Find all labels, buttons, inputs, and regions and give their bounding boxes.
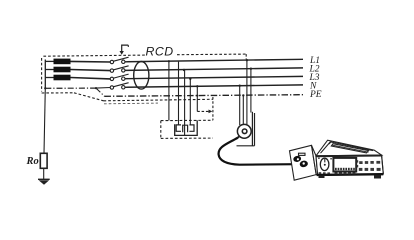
socket contact 2 [183, 125, 188, 132]
wire drop from L3 to socket pin R [189, 79, 191, 125]
instrument top face [316, 140, 382, 156]
instrument front face [316, 155, 383, 175]
plug circle [237, 124, 251, 138]
instrument right edge [382, 155, 384, 174]
junction node earth tap [44, 87, 46, 89]
wire fuse F1 to switch [71, 60, 111, 63]
supply dashed enclosure bottom border [42, 92, 74, 94]
connector small mark [299, 153, 306, 155]
keypad row 2 [359, 168, 381, 171]
boundary second dashed segment [104, 102, 158, 105]
junction dot plug L1 tap [246, 59, 248, 61]
socket contact 1 [176, 125, 181, 131]
junction dot on L3 [189, 78, 191, 80]
wire fuse F3 to switch [71, 78, 111, 79]
ground electrode symbol [38, 179, 50, 185]
earth wire down to Ro [44, 88, 45, 153]
svg-text:Ro: Ro [26, 156, 39, 167]
junction node PEN split [95, 87, 97, 89]
wire drop from N [196, 86, 198, 111]
display [333, 158, 356, 172]
switch contact row 3 [110, 74, 128, 81]
RCD toroid [134, 62, 149, 90]
fuse F1 [45, 59, 70, 65]
dashed stub above L1 tap [245, 54, 247, 59]
dashed vertical at socket box right [212, 97, 214, 120]
socket outlet body outline [175, 120, 198, 135]
wire PE to plug [242, 95, 244, 125]
resistor Ro [40, 153, 47, 168]
installation dashed boundary bottom [104, 99, 214, 101]
PE diagonal jog [96, 88, 105, 96]
fuse F3 [45, 75, 70, 81]
wire L1 to plug [246, 60, 248, 124]
RCD trip arrow [120, 45, 129, 55]
instrument foot left [319, 175, 325, 178]
line L1 [125, 59, 303, 62]
instrument top handle lines [321, 142, 331, 154]
marks under dial [319, 172, 322, 174]
wire drop from L2 to socket middle pin [184, 70, 186, 135]
wire Ro to ground [43, 168, 45, 179]
connector blob 2 [299, 160, 308, 168]
junction dot on L2 [183, 69, 185, 71]
small keys strip below display [335, 173, 356, 175]
line L2 [125, 68, 303, 71]
junction dot plug L2 tap [250, 68, 252, 70]
wire drop to socket pin L [178, 62, 180, 125]
supply dashed enclosure left border [41, 58, 43, 92]
junction dot plug PE tap [242, 94, 244, 96]
wall socket frame [237, 112, 255, 146]
line N [125, 85, 303, 87]
switch contact row 2 [110, 66, 128, 73]
svg-text:RCD: RCD [146, 45, 174, 59]
wire N to plug [239, 86, 241, 125]
marks right of display [357, 160, 358, 162]
switch contact row 4 [110, 83, 128, 90]
installation dashed top border (after RCD label) [177, 53, 246, 56]
line L3 [125, 76, 303, 78]
instrument foot right [374, 175, 381, 179]
fuse F2 [45, 67, 70, 73]
test instrument [290, 140, 384, 180]
dial ticks [318, 157, 320, 159]
switch contact row 1 [110, 57, 128, 64]
junction dot N drop on PE crossing [196, 95, 198, 97]
rotary dial [320, 158, 329, 170]
connector blob 1 [293, 155, 302, 162]
wire L2 tap down to socket frame [250, 69, 252, 113]
instrument left terminal plate [290, 145, 317, 180]
socket contact 3 [189, 125, 194, 131]
instrument left side face [312, 145, 318, 174]
arrowhead [209, 110, 213, 114]
junction dot plug N tap [239, 85, 241, 87]
junction dot on N [196, 85, 198, 87]
supply dashed enclosure top border [43, 55, 145, 56]
junction dot L1 drop [168, 60, 170, 62]
plug cable gland [237, 136, 240, 139]
display digits [335, 168, 355, 170]
instrument bottom edge [317, 173, 384, 176]
keypad row 1 [359, 161, 380, 164]
PEN conductor dash-dot [45, 87, 96, 89]
socket outlet dashed box [161, 120, 213, 138]
wire N to switch row 4 [96, 87, 110, 90]
wire fuse F2 to switch [71, 70, 111, 71]
mains test cable [219, 138, 296, 165]
installation dashed boundary diagonal [74, 93, 104, 101]
PE line dash-dot to right [105, 95, 304, 97]
svg-text:PE: PE [309, 90, 322, 100]
dashed arrow to socket PE [197, 110, 208, 112]
connector highlights [297, 158, 299, 160]
plug inner dot [242, 129, 247, 134]
wire drop from L1 to socket box [168, 61, 170, 120]
supply bus vertical wire [44, 60, 46, 89]
